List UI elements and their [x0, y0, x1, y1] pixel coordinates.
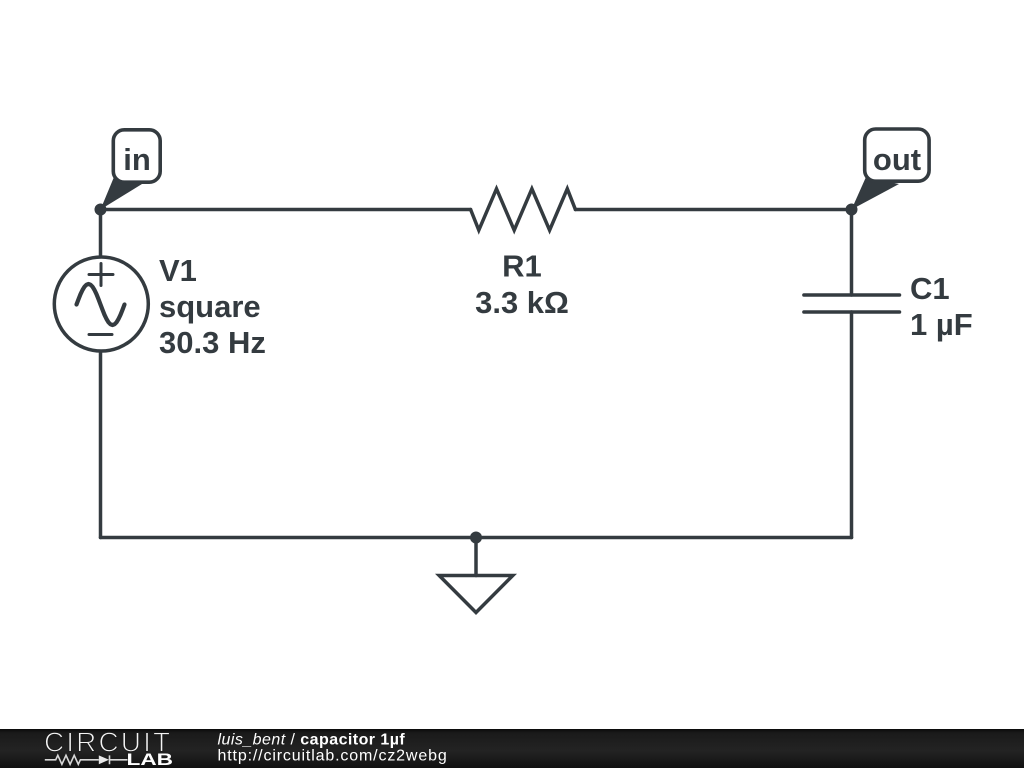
svg-text:C1: C1: [910, 271, 950, 306]
wire right vertical lower: [850, 312, 854, 538]
node in flag: [101, 130, 161, 210]
svg-text:luis_bent / capacitor 1µf: luis_bent / capacitor 1µf: [218, 731, 406, 748]
svg-text:square: square: [159, 289, 261, 324]
svg-text:LAB: LAB: [127, 750, 174, 768]
svg-text:V1: V1: [159, 253, 197, 288]
node out flag: [852, 129, 930, 210]
voltage source V1: [54, 257, 148, 351]
node ground junction dot: [470, 532, 482, 544]
wire left vertical lower: [99, 352, 103, 538]
svg-text:30.3 Hz: 30.3 Hz: [159, 325, 266, 360]
wire top rail right segment: [575, 208, 851, 212]
wire ground stub: [474, 538, 478, 576]
svg-text:out: out: [873, 142, 921, 177]
node in junction dot: [95, 204, 107, 216]
wire top rail left segment: [101, 208, 471, 212]
node out junction dot: [846, 204, 858, 216]
CircuitLab logo resistor-diode line: [45, 755, 128, 764]
wire bottom rail: [101, 536, 852, 540]
resistor R1: [471, 189, 576, 230]
svg-text:http://circuitlab.com/cz2webg: http://circuitlab.com/cz2webg: [218, 748, 448, 765]
ground: [439, 576, 513, 613]
svg-text:in: in: [123, 142, 151, 177]
wire left vertical upper: [99, 210, 103, 257]
svg-text:R1: R1: [502, 249, 542, 284]
svg-text:1 µF: 1 µF: [910, 307, 973, 342]
CircuitLab logo diode: [99, 755, 109, 764]
capacitor C1: [804, 295, 900, 312]
wire right vertical upper: [850, 210, 854, 296]
svg-text:3.3 kΩ: 3.3 kΩ: [475, 285, 569, 320]
footer bar: [0, 729, 1024, 768]
